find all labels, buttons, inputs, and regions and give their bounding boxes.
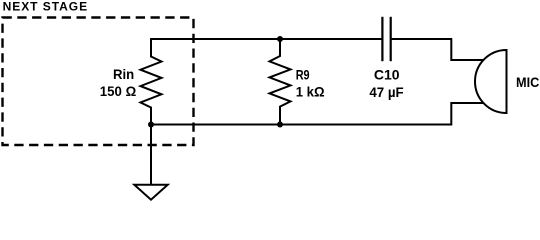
- svg-text:MIC: MIC: [516, 74, 539, 90]
- svg-text:C10: C10: [374, 67, 400, 83]
- svg-text:NEXT STAGE: NEXT STAGE: [3, 0, 88, 13]
- svg-text:R9: R9: [296, 67, 310, 83]
- svg-text:Rin: Rin: [113, 66, 134, 82]
- svg-text:150 Ω: 150 Ω: [100, 83, 136, 99]
- svg-text:1 kΩ: 1 kΩ: [296, 84, 325, 100]
- svg-text:47 µF: 47 µF: [369, 84, 404, 100]
